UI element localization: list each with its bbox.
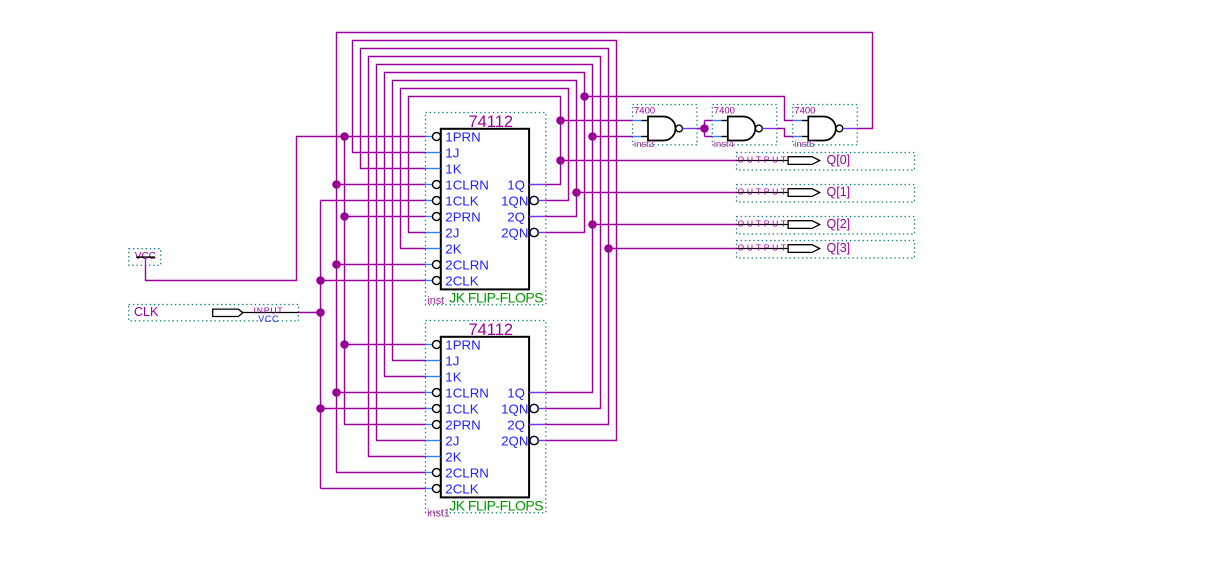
svg-text:1K: 1K [445, 161, 461, 176]
junction VCC/1PRN upper [340, 132, 349, 141]
pin 1CLK of inst1 [426, 408, 433, 410]
svg-text:1QN: 1QN [501, 193, 528, 208]
output bubble of inst4 [756, 125, 763, 132]
wire net CLRN: inst5 output around top-left to all CLRN pins [337, 33, 873, 473]
INPUT symbol arrow of CLK [213, 309, 243, 316]
svg-text:OUTPUT: OUTPUT [738, 218, 789, 228]
svg-text:1Q: 1Q [507, 177, 525, 192]
pin in2 of inst5 [793, 136, 802, 138]
connector line of CLK [243, 312, 299, 314]
svg-text:1CLRN: 1CLRN [445, 385, 489, 400]
power symbol VCC [129, 249, 161, 266]
svg-text:Q[2]: Q[2] [827, 217, 851, 231]
svg-text:7400: 7400 [794, 106, 815, 117]
wire net CLK: input pin to all CLK pins [299, 201, 426, 489]
wire net: lower 1QN to lower 2K [369, 57, 601, 457]
gate body of inst5 [808, 117, 836, 141]
svg-text:2K: 2K [445, 241, 461, 256]
svg-text:2CLRN: 2CLRN [445, 465, 489, 480]
pin 1Q of inst [529, 184, 546, 186]
svg-text:inst5: inst5 [794, 139, 814, 150]
svg-text:1PRN: 1PRN [445, 337, 480, 352]
pin 2QN of inst [530, 228, 538, 236]
pin in1 of inst5 [793, 120, 802, 122]
junction CLK/1CLK lower [316, 404, 325, 413]
junction VCC/1PRN lower [340, 340, 349, 349]
VCC T-bar [136, 256, 155, 258]
pin 1J of inst [426, 152, 441, 154]
74112 JK flip-flop inst1 [426, 321, 546, 520]
pin 2J of inst1 [426, 440, 441, 442]
svg-text:74112: 74112 [468, 321, 513, 339]
output connector Q[2] [737, 217, 915, 235]
pin out of inst4 [762, 128, 777, 130]
pin 1Q of inst1 [529, 392, 546, 394]
junction Q[2] tap [588, 220, 597, 229]
wire net: inst4 output to inst5 input 2 [777, 129, 793, 137]
wire net: upper 1Q to upper 2J, Q[0] and inst3 input 1 [409, 97, 737, 233]
pin 2Q of inst1 [529, 424, 546, 426]
svg-text:1Q: 1Q [507, 385, 525, 400]
junction inst3 input 2 tap [588, 132, 597, 141]
pin 1QN of inst [530, 196, 538, 204]
connector line of Q[1] [737, 192, 789, 194]
pin 2PRN of inst [426, 216, 433, 218]
pin 1CLRN of inst1 [426, 392, 433, 394]
wire net: upper 2Q to lower 1J and Q[1] [393, 81, 737, 361]
svg-text:2J: 2J [445, 433, 459, 448]
pin in2 of inst4 [712, 136, 721, 138]
pin 1QN of inst1 [530, 404, 538, 412]
pin 2K of inst [426, 248, 441, 250]
svg-text:2QN: 2QN [501, 225, 528, 240]
7400 NAND gate inst5 [793, 105, 858, 151]
svg-text:JK FLIP-FLOPS: JK FLIP-FLOPS [449, 290, 543, 306]
pin 2CLK of inst1 [426, 488, 433, 490]
junction Q[1] tap [572, 188, 581, 197]
pin 2PRN of inst1 [426, 424, 433, 426]
junction CLK/2CLK upper [316, 276, 325, 285]
pin in1 of inst3 [633, 120, 642, 122]
svg-text:1QN: 1QN [501, 401, 528, 416]
svg-text:inst1: inst1 [427, 508, 450, 520]
svg-text:2Q: 2Q [507, 209, 525, 224]
svg-text:2Q: 2Q [507, 417, 525, 432]
svg-text:1CLRN: 1CLRN [445, 177, 489, 192]
svg-text:CLK: CLK [134, 305, 159, 319]
pin 1K of inst1 [426, 376, 441, 378]
pin 2CLRN of inst [426, 264, 433, 266]
svg-text:7400: 7400 [634, 106, 655, 117]
connector line of Q[3] [737, 248, 789, 250]
svg-text:1K: 1K [445, 369, 461, 384]
junction inst3 output fanout [700, 124, 709, 133]
svg-text:inst4: inst4 [714, 139, 734, 150]
svg-text:2PRN: 2PRN [445, 417, 480, 432]
svg-text:Q[1]: Q[1] [827, 185, 851, 199]
output connector Q[1] [737, 185, 915, 203]
junction VCC/2PRN upper [340, 212, 349, 221]
svg-text:74112: 74112 [468, 113, 513, 131]
pin 1CLK of inst [426, 200, 433, 202]
pin 1J of inst1 [426, 360, 441, 362]
svg-text:VCC: VCC [258, 314, 279, 324]
7400 NAND gate inst3 [633, 105, 698, 151]
output bubble of inst3 [676, 125, 683, 132]
pin 1CLRN of inst [426, 184, 433, 186]
svg-text:1CLK: 1CLK [445, 401, 478, 416]
svg-text:1J: 1J [445, 353, 459, 368]
pin out of inst3 [683, 128, 698, 130]
wire net: lower 2QN to upper 1J [353, 41, 617, 441]
svg-text:7400: 7400 [714, 106, 735, 117]
junction CLRN/1CLRN upper [332, 180, 341, 189]
svg-text:OUTPUT: OUTPUT [738, 242, 789, 252]
7400 NAND gate inst4 [712, 105, 777, 151]
OUTPUT symbol arrow of Q[2] [788, 221, 820, 229]
svg-text:2PRN: 2PRN [445, 209, 480, 224]
OUTPUT symbol arrow of Q[1] [788, 189, 820, 197]
pin 2Q of inst [529, 216, 546, 218]
svg-text:2QN: 2QN [501, 433, 528, 448]
pin 1PRN of inst1 [426, 344, 433, 346]
junction Q[0] tap [556, 156, 565, 165]
svg-text:inst3: inst3 [634, 139, 654, 150]
connector line of Q[0] [737, 160, 789, 162]
svg-text:2K: 2K [445, 449, 461, 464]
svg-text:JK FLIP-FLOPS: JK FLIP-FLOPS [449, 498, 543, 514]
svg-text:OUTPUT: OUTPUT [738, 154, 789, 164]
wire net: lower 1Q to lower 2J, Q[2] and inst3 input 2 [377, 65, 737, 441]
OUTPUT symbol arrow of Q[0] [788, 157, 820, 165]
VCC pin stub [145, 257, 147, 265]
junction Q[3] tap [604, 244, 613, 253]
junction inst5 feed tap [580, 92, 589, 101]
OUTPUT symbol arrow of Q[3] [788, 245, 820, 253]
pin 1K of inst [426, 168, 441, 170]
wire net: upper 2QN to lower 1K and inst5 input 1 [385, 73, 793, 377]
output connector Q[0] [737, 153, 915, 171]
svg-text:inst: inst [427, 295, 444, 307]
pin in1 of inst4 [712, 120, 721, 122]
pin 2CLRN of inst1 [426, 472, 433, 474]
wire net: upper 1QN to upper 2K [401, 89, 569, 249]
pin out of inst5 [843, 128, 858, 130]
junction inst3 input 1 tap [556, 116, 565, 125]
svg-text:Q[0]: Q[0] [827, 153, 851, 167]
svg-text:2CLK: 2CLK [445, 273, 478, 288]
gate body of inst3 [648, 117, 676, 141]
svg-text:1CLK: 1CLK [445, 193, 478, 208]
pin 2K of inst1 [426, 456, 441, 458]
wire net: inst3 output to inst4 inputs [697, 121, 712, 137]
svg-text:1PRN: 1PRN [445, 129, 480, 144]
junction CLK input [316, 308, 325, 317]
output bubble of inst5 [836, 125, 843, 132]
svg-text:Q[3]: Q[3] [827, 241, 851, 255]
svg-text:2CLRN: 2CLRN [445, 257, 489, 272]
pin 2CLK of inst [426, 280, 433, 282]
junction CLRN/1CLRN lower [332, 388, 341, 397]
pin 2QN of inst1 [530, 436, 538, 444]
junction CLRN/2CLRN upper [332, 260, 341, 269]
svg-text:OUTPUT: OUTPUT [738, 186, 789, 196]
input connector CLK [129, 305, 299, 324]
svg-text:1J: 1J [445, 145, 459, 160]
74112 JK flip-flop inst [426, 113, 546, 307]
pin 2J of inst [426, 232, 441, 234]
output connector Q[3] [737, 241, 915, 259]
svg-text:2CLK: 2CLK [445, 481, 478, 496]
pin in2 of inst3 [633, 136, 642, 138]
wire net VCC: symbol to 1PRN/2PRN pins of both FFs [146, 137, 426, 425]
wire net: lower 2Q to upper 1K and Q[3] [361, 49, 737, 425]
gate body of inst4 [728, 117, 756, 141]
connector line of Q[2] [737, 224, 789, 226]
pin 1PRN of inst [426, 136, 433, 138]
svg-text:2J: 2J [445, 225, 459, 240]
